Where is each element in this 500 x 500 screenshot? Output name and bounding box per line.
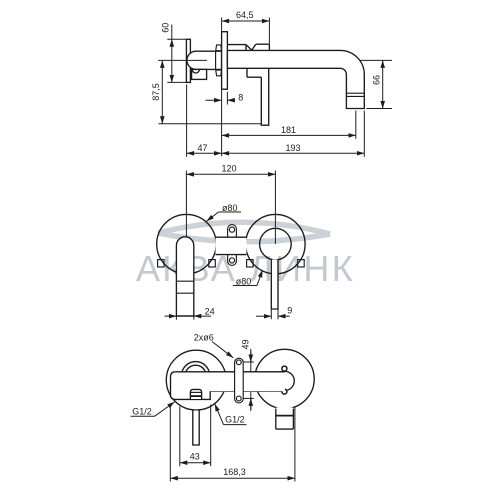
spout tube front view (271, 260, 278, 310)
dim 64.5 (222, 20, 270, 22)
dim 9 (256, 315, 271, 317)
outlet (276, 408, 294, 430)
cartridge rings (182, 362, 210, 390)
dim 60 (171, 39, 173, 82)
leader 2xø6 (212, 342, 233, 358)
G1/2 right (224, 424, 247, 426)
svg-text:47: 47 (197, 143, 207, 153)
wall plate (222, 32, 228, 89)
dim 120 (186, 173, 275, 175)
svg-text:64,5: 64,5 (236, 10, 254, 20)
step block under grip (192, 69, 207, 79)
screws (282, 366, 287, 371)
left rosette (plan) (166, 350, 226, 410)
leader ø80 bottom (233, 285, 257, 287)
small boss top (216, 45, 222, 51)
lever stem (side view) (261, 77, 268, 125)
extension long left (plate edge) (221, 18, 223, 157)
watermark logo swoosh (158, 222, 330, 242)
dim 181 (222, 134, 356, 136)
dim 8 (206, 99, 222, 101)
svg-text:66: 66 (371, 75, 381, 85)
handle joint tab (plan) (190, 391, 201, 399)
dim 49 (250, 349, 252, 411)
handle front view (176, 237, 193, 316)
bulge arc (192, 69, 199, 73)
svg-text:60: 60 (161, 23, 171, 33)
handle grip (187, 51, 222, 69)
svg-text:193: 193 (285, 143, 300, 153)
connecting bar (216, 237, 247, 254)
svg-text:181: 181 (281, 125, 296, 135)
spout (227, 50, 364, 108)
svg-text:ø80: ø80 (236, 276, 252, 286)
svg-text:168,3: 168,3 (223, 467, 246, 477)
dim 168.3 (170, 477, 295, 479)
bracket strip (228, 225, 237, 266)
leader ø80 top (219, 211, 242, 213)
inner circle right rosette (260, 228, 292, 260)
svg-text:G1/2: G1/2 (225, 414, 245, 424)
body block (171, 372, 285, 400)
body above spout (227, 44, 269, 51)
svg-text:2xø6: 2xø6 (194, 332, 214, 342)
svg-text:G1/2: G1/2 (132, 406, 152, 416)
right rosette (plan) (255, 349, 314, 408)
centerline through grip (158, 59, 207, 61)
block below spout (247, 68, 261, 77)
dim 24 (165, 315, 212, 317)
svg-text:ø80: ø80 (222, 203, 238, 213)
dim 193 (222, 152, 365, 154)
small boss bottom (216, 70, 222, 76)
tube to right rosette (210, 372, 285, 391)
boss cap (275, 371, 294, 390)
dim 43 (180, 462, 211, 464)
bracket (plan) (235, 358, 244, 403)
grip end joint (215, 51, 217, 69)
svg-text:49: 49 (240, 339, 250, 349)
dim 87.5 (161, 60, 163, 123)
dim 66 (382, 60, 384, 108)
handle flange (186, 39, 190, 82)
G1/2 left (131, 415, 155, 417)
dim 47 (187, 152, 222, 154)
svg-text:8: 8 (238, 93, 243, 103)
svg-text:87,5: 87,5 (151, 83, 161, 101)
svg-text:24: 24 (205, 306, 215, 316)
lugs left circle (158, 260, 305, 267)
aerator band (346, 93, 364, 96)
right rosette circle (246, 214, 305, 273)
svg-text:120: 120 (221, 163, 236, 173)
svg-text:43: 43 (190, 451, 200, 461)
left rosette circle (157, 214, 216, 273)
stem (plan) (193, 411, 199, 445)
svg-text:9: 9 (287, 305, 292, 315)
